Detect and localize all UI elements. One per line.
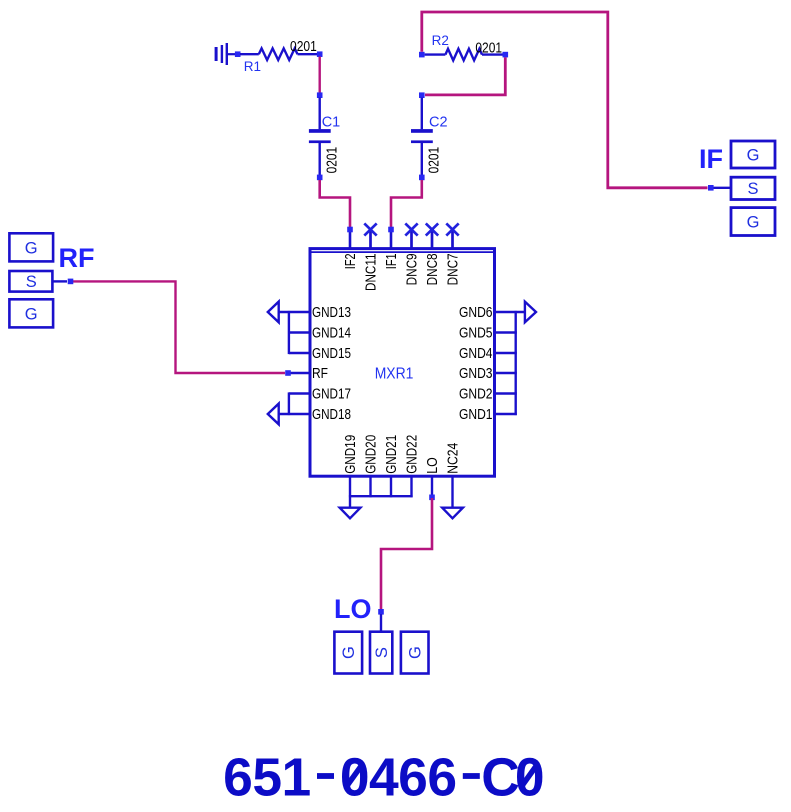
resistor R1 xyxy=(240,48,317,60)
svg-text:C1: C1 xyxy=(322,115,341,131)
LO port G box (right) xyxy=(401,632,429,674)
svg-text:0201: 0201 xyxy=(324,147,340,174)
RF port G box (bottom) xyxy=(9,299,53,327)
svg-text:GND19: GND19 xyxy=(343,435,359,474)
node: RF S junction xyxy=(68,279,74,285)
svg-text:R2: R2 xyxy=(432,33,449,48)
LO port S box xyxy=(370,632,392,674)
slash on zero of 0466 xyxy=(347,765,362,786)
svg-text:GND22: GND22 xyxy=(405,435,421,474)
capacitor C2 xyxy=(411,98,433,176)
wire IF S box stub xyxy=(714,187,732,189)
wire GND13 group (left) xyxy=(279,311,309,354)
wire RF port to RF pin (magenta) xyxy=(73,281,285,373)
node: C1 pin 1 xyxy=(317,92,323,98)
node: R1 pin 2 xyxy=(317,51,323,57)
node: R1 pin 1 xyxy=(235,51,241,57)
svg-text:6: 6 xyxy=(398,749,428,808)
off-page arrow at GND18 xyxy=(268,404,279,425)
svg-text:6: 6 xyxy=(427,749,457,808)
RF port G box (top) xyxy=(9,233,53,261)
svg-text:NC24: NC24 xyxy=(446,443,462,474)
node: LO junction xyxy=(429,495,435,501)
node: C1 pin 2 xyxy=(317,175,323,181)
svg-text:GND21: GND21 xyxy=(384,435,400,474)
svg-text:4: 4 xyxy=(369,749,399,808)
svg-text:GND1: GND1 xyxy=(459,407,493,423)
pin stub LO xyxy=(431,476,433,495)
svg-text:GND4: GND4 xyxy=(459,346,493,362)
off-page arrow at GND6 xyxy=(525,302,536,323)
node: R2 pin 2 xyxy=(503,52,509,58)
wire GND1-GND6 bus (right) xyxy=(495,311,525,415)
wire LO pin to LO port (magenta) xyxy=(381,498,432,610)
svg-text:GND13: GND13 xyxy=(312,305,351,321)
RF port S box xyxy=(9,271,52,292)
node: RF junction xyxy=(285,370,291,376)
svg-text:LO: LO xyxy=(425,457,441,474)
wire R1 to C1 (magenta) xyxy=(319,57,321,94)
node: IF1 junction xyxy=(388,227,394,233)
wire C1 to IF2 (magenta) xyxy=(320,180,350,228)
pin stub IF1 (top) xyxy=(390,230,393,249)
svg-text:GND2: GND2 xyxy=(459,387,493,403)
svg-text:C2: C2 xyxy=(429,115,448,131)
pin stub DNC7 with no-connect X xyxy=(446,223,458,248)
pin stub DNC8 with no-connect X xyxy=(426,223,438,248)
IF port G box (bottom) xyxy=(731,208,775,236)
svg-text:G: G xyxy=(747,213,760,231)
svg-text:RF: RF xyxy=(312,366,328,382)
svg-text:GND14: GND14 xyxy=(312,326,351,342)
svg-text:IF2: IF2 xyxy=(343,253,359,269)
node: C2 pin 2 xyxy=(419,175,425,181)
op IC MXR1 body xyxy=(310,249,495,477)
svg-text:0201: 0201 xyxy=(426,147,442,174)
svg-text:R1: R1 xyxy=(244,59,261,74)
off-page arrow below NC24 xyxy=(442,508,463,519)
svg-text:DNC8: DNC8 xyxy=(425,253,441,285)
resistor R2 xyxy=(425,49,503,61)
svg-text:5: 5 xyxy=(252,749,282,808)
pin stub NC24 xyxy=(451,476,453,508)
wire C2 to IF1 (magenta) xyxy=(391,180,422,228)
svg-text:DNC9: DNC9 xyxy=(405,253,421,285)
svg-text:DNC11: DNC11 xyxy=(364,254,380,292)
svg-text:0201: 0201 xyxy=(290,39,317,55)
svg-text:DNC7: DNC7 xyxy=(446,253,462,285)
svg-text:GND20: GND20 xyxy=(364,435,380,474)
svg-text:S: S xyxy=(373,647,391,658)
svg-text:GND17: GND17 xyxy=(312,387,351,403)
svg-text:G: G xyxy=(25,239,38,257)
pin stub RF xyxy=(288,372,309,374)
pin stub DNC9 with no-connect X xyxy=(405,223,417,248)
off-page arrow at GND13 xyxy=(268,302,279,323)
svg-text:1: 1 xyxy=(281,749,311,808)
svg-text:S: S xyxy=(747,180,758,198)
svg-text:IF1: IF1 xyxy=(384,253,400,269)
svg-text:LO: LO xyxy=(334,594,372,624)
svg-text:MXR1: MXR1 xyxy=(375,365,414,382)
svg-text:GND18: GND18 xyxy=(312,407,351,423)
node: IF S junction xyxy=(708,185,714,191)
svg-text:G: G xyxy=(747,146,760,164)
svg-text:GND6: GND6 xyxy=(459,305,493,321)
slash on zero of C0 xyxy=(522,765,537,786)
capacitor C1 xyxy=(309,98,331,176)
wire RF S box stub xyxy=(53,280,67,282)
IF port S box xyxy=(731,177,775,199)
svg-text:GND3: GND3 xyxy=(459,366,493,382)
node: C2 pin 1 xyxy=(419,92,425,98)
wire R2 to IF port (magenta) xyxy=(422,12,708,188)
svg-text:GND15: GND15 xyxy=(312,346,351,362)
off-page arrow below GND19 xyxy=(340,508,361,519)
wire GND17 GND18 group (left) xyxy=(279,392,309,415)
wire LO S box stub xyxy=(380,614,382,632)
svg-text:IF: IF xyxy=(699,144,723,174)
pin stub DNC11 with no-connect X xyxy=(364,223,376,248)
svg-text:RF: RF xyxy=(59,243,95,273)
svg-text:GND5: GND5 xyxy=(459,326,493,342)
node: R2 pin 1 xyxy=(419,52,425,58)
LO port G box (left) xyxy=(334,632,362,674)
svg-text:S: S xyxy=(26,273,37,291)
node: IF2 junction xyxy=(347,227,353,233)
svg-text:6: 6 xyxy=(223,749,253,808)
wire GND19-GND22 bus (bottom) xyxy=(349,476,413,508)
pin stub IF2 (top) xyxy=(349,230,352,249)
node: LO S junction xyxy=(378,609,384,615)
svg-text:G: G xyxy=(340,646,358,659)
svg-text:G: G xyxy=(407,646,425,659)
svg-text:G: G xyxy=(25,305,38,323)
title text 651-0466-C0 xyxy=(223,749,544,808)
IF port G box (top) xyxy=(731,141,775,168)
wire R2 to C2 (magenta) xyxy=(425,57,505,95)
ground symbol (earth) at R1 xyxy=(215,43,236,65)
svg-text:0201: 0201 xyxy=(475,40,502,56)
